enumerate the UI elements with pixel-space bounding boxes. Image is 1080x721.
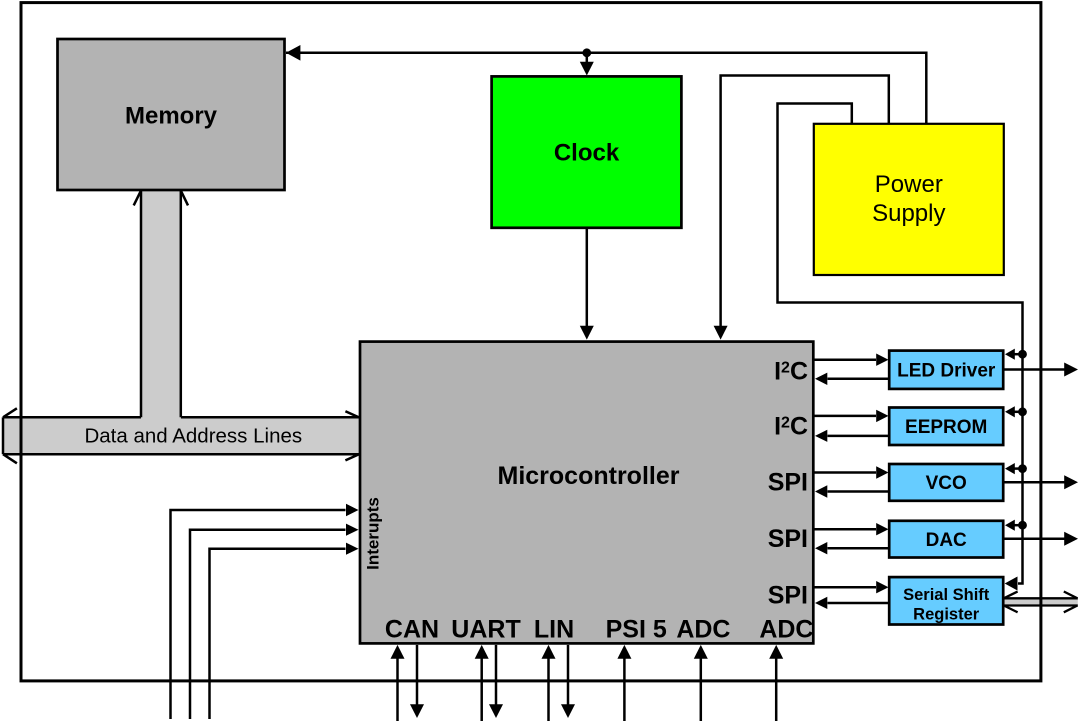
arrowhead interrupt 3 into MCU left bbox=[346, 543, 359, 555]
wire interrupt 2 bbox=[190, 530, 346, 719]
junction dot DAC stub bbox=[1018, 521, 1027, 530]
svg-text:ADC: ADC bbox=[676, 616, 730, 644]
wire VCO in to MCU bbox=[828, 490, 890, 493]
svg-text:Power: Power bbox=[875, 171, 943, 198]
arrowhead into VCO right bbox=[1005, 463, 1015, 474]
wire LIN input bbox=[547, 658, 550, 721]
junction dot EEPROM stub bbox=[1018, 407, 1027, 416]
arrowhead into MCU from VCO bbox=[815, 485, 827, 497]
wire W3 power to peripherals chain bbox=[778, 104, 1023, 584]
svg-text:SPI: SPI bbox=[768, 469, 808, 497]
wire interrupt 1 bbox=[171, 510, 346, 719]
arrowhead into memory bbox=[286, 45, 300, 61]
wire PSI5 input bbox=[623, 658, 626, 721]
wire SPI out to DAC bbox=[813, 528, 876, 531]
svg-text:Supply: Supply bbox=[872, 200, 945, 227]
block VCO bbox=[889, 464, 1003, 501]
arrowhead into MCU from serial shift register bbox=[815, 597, 827, 609]
arrowhead interrupt 2 into MCU left bbox=[346, 524, 359, 536]
wire clock feed stub bbox=[586, 53, 589, 63]
wire clock to microcontroller bbox=[586, 228, 589, 326]
wire stub to DAC bbox=[1014, 524, 1023, 527]
arrowhead CAN output down bbox=[410, 704, 424, 718]
wire I2C out to LED driver bbox=[813, 358, 876, 361]
arrowhead into microcontroller top (right) bbox=[714, 326, 728, 340]
wire I2C out to EEPROM bbox=[813, 415, 876, 418]
svg-text:Serial Shift: Serial Shift bbox=[903, 586, 990, 604]
wire ADC1 input bbox=[700, 658, 703, 721]
block Serial Shift Register bbox=[889, 577, 1003, 624]
arrowhead into EEPROM left bbox=[876, 410, 888, 422]
wire LED driver output bbox=[1003, 368, 1064, 371]
svg-text:Clock: Clock bbox=[554, 139, 620, 166]
block EEPROM bbox=[889, 408, 1003, 446]
svg-text:VCO: VCO bbox=[926, 473, 967, 494]
arrowhead VCO output bbox=[1064, 475, 1078, 489]
arrowhead ADC2 into MCU bottom bbox=[769, 645, 783, 659]
svg-text:DAC: DAC bbox=[926, 530, 967, 551]
arrowhead CAN into MCU bottom bbox=[391, 645, 405, 659]
block Power Supply bbox=[814, 124, 1004, 275]
wire SPI out to VCO bbox=[813, 471, 876, 474]
wire stub to VCO bbox=[1014, 467, 1023, 470]
svg-text:PSI 5: PSI 5 bbox=[606, 616, 667, 644]
arrowhead ADC1 into MCU bottom bbox=[694, 645, 708, 659]
svg-text:Memory: Memory bbox=[125, 102, 218, 129]
arrowhead LIN into MCU bottom bbox=[542, 645, 556, 659]
svg-text:CAN: CAN bbox=[385, 616, 439, 644]
block LED Driver bbox=[889, 351, 1003, 389]
arrowhead into serial shift register right bbox=[1005, 577, 1018, 591]
thick gray arrow Serial Shift Register external bbox=[1003, 592, 1078, 613]
wire SPI out to serial shift register bbox=[813, 586, 876, 589]
block DAC bbox=[889, 521, 1003, 558]
svg-text:Data and Address Lines: Data and Address Lines bbox=[84, 424, 302, 447]
bus Data and Address Lines (horizontal) bbox=[3, 408, 360, 463]
wire ADC2 input bbox=[775, 658, 778, 721]
arrowhead LIN output down bbox=[561, 704, 575, 718]
wire VCO output bbox=[1003, 481, 1064, 484]
wire DAC output bbox=[1003, 538, 1064, 541]
svg-text:Microcontroller: Microcontroller bbox=[498, 462, 680, 490]
arrowhead into DAC left bbox=[876, 523, 888, 535]
svg-text:ADC: ADC bbox=[759, 616, 813, 644]
svg-text:UART: UART bbox=[451, 616, 520, 644]
arrowhead PSI5 into MCU bottom bbox=[617, 645, 631, 659]
wire serial shift register in to MCU bbox=[828, 602, 890, 605]
arrowhead into microcontroller top (left) bbox=[580, 326, 594, 340]
junction dot above clock bbox=[582, 48, 591, 57]
wire LIN output bbox=[567, 645, 570, 706]
wire DAC in to MCU bbox=[828, 547, 890, 550]
arrowhead interrupt 1 into MCU left bbox=[346, 504, 359, 516]
svg-text:Interupts: Interupts bbox=[364, 497, 383, 570]
svg-text:SPI: SPI bbox=[768, 582, 808, 610]
svg-text:I2C: I2C bbox=[774, 413, 808, 441]
wire stub to EEPROM bbox=[1014, 411, 1023, 414]
block Memory bbox=[58, 39, 285, 190]
arrowhead into clock top bbox=[580, 62, 594, 76]
wire CAN input bbox=[396, 658, 399, 721]
arrowhead into MCU from DAC bbox=[815, 542, 827, 554]
arrowhead into MCU from LED driver bbox=[815, 373, 827, 385]
block Microcontroller bbox=[360, 342, 813, 644]
svg-text:I2C: I2C bbox=[774, 358, 808, 386]
wire stub to LED driver bbox=[1014, 353, 1023, 356]
arrowhead UART into MCU bottom bbox=[475, 645, 489, 659]
svg-text:LIN: LIN bbox=[534, 616, 574, 644]
wire UART output bbox=[495, 645, 498, 706]
wire W1 power to memory bbox=[286, 53, 926, 124]
arrowhead UART output down bbox=[489, 704, 503, 718]
junction dot LED driver stub bbox=[1018, 350, 1027, 359]
wire interrupt 3 bbox=[210, 549, 346, 719]
wire W2 power to microcontroller bbox=[721, 76, 889, 327]
bus memory vertical bbox=[134, 190, 188, 419]
wire EEPROM in to MCU bbox=[828, 435, 890, 438]
arrowhead into VCO left bbox=[876, 466, 888, 478]
svg-text:LED Driver: LED Driver bbox=[897, 361, 996, 382]
arrowhead LED driver output bbox=[1064, 363, 1078, 377]
arrowhead into MCU from EEPROM bbox=[815, 430, 827, 442]
svg-text:Register: Register bbox=[913, 605, 980, 623]
arrowhead into EEPROM right bbox=[1005, 406, 1015, 417]
wire LED driver in to MCU bbox=[828, 378, 890, 381]
svg-text:SPI: SPI bbox=[768, 525, 808, 553]
arrowhead into LED driver right bbox=[1005, 349, 1015, 360]
block Clock bbox=[492, 76, 682, 227]
arrowhead into serial shift register left bbox=[876, 581, 888, 593]
arrowhead DAC output bbox=[1064, 532, 1078, 546]
svg-text:EEPROM: EEPROM bbox=[905, 417, 987, 438]
wire CAN output bbox=[416, 645, 419, 706]
arrowhead into DAC right bbox=[1005, 520, 1015, 531]
junction dot VCO stub bbox=[1018, 464, 1027, 473]
wire UART input bbox=[480, 658, 483, 721]
arrowhead into LED driver left bbox=[876, 354, 888, 366]
